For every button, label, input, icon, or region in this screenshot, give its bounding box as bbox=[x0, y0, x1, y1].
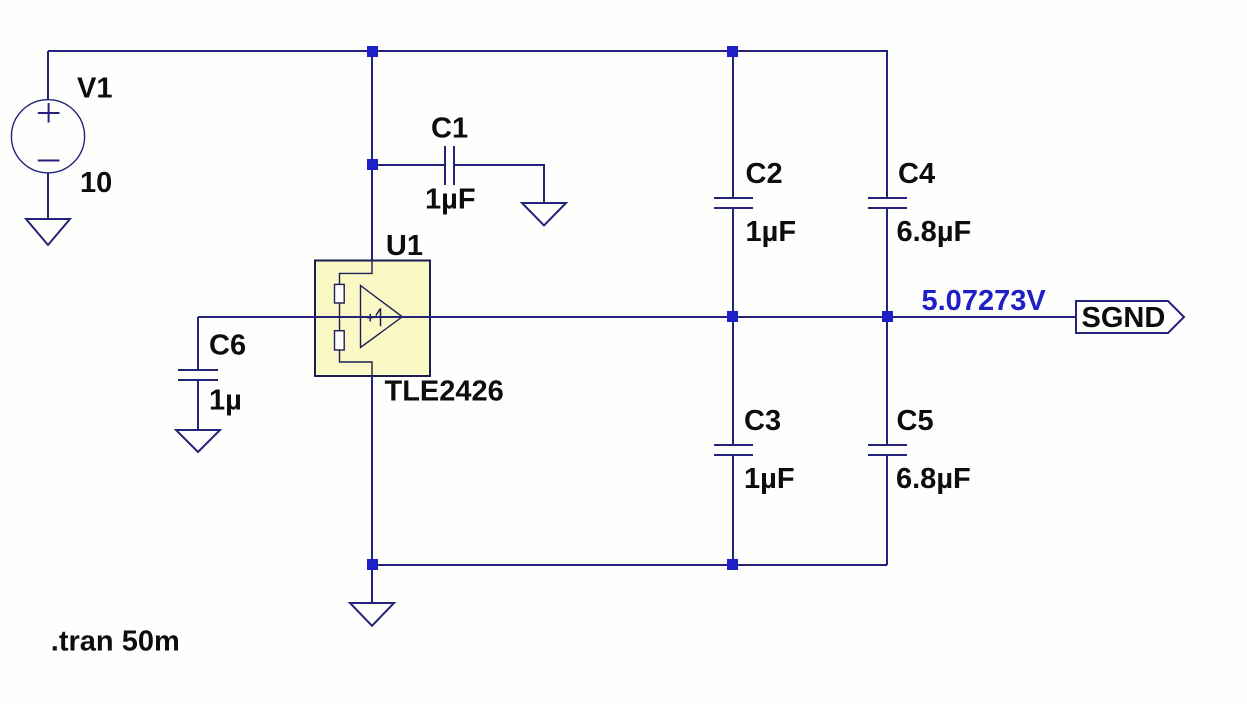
svg-text:C4: C4 bbox=[898, 158, 935, 190]
U1 internal resistor top bbox=[335, 284, 345, 303]
output port flag SGND bbox=[1076, 301, 1184, 333]
wire output rail bbox=[198, 316, 1076, 318]
svg-text:C5: C5 bbox=[897, 405, 934, 437]
wire V1 bottom stub bbox=[47, 173, 49, 219]
junction bottom rail / C3 bbox=[727, 559, 738, 570]
svg-text:10: 10 bbox=[80, 167, 112, 199]
capacitor C6 plates bbox=[178, 370, 218, 380]
svg-text:1µ: 1µ bbox=[209, 385, 242, 417]
U1 +1 marking bbox=[367, 308, 381, 326]
svg-text:1µF: 1µF bbox=[744, 463, 795, 495]
junction bottom rail / U1 ground bbox=[367, 559, 378, 570]
wire U1 common vertical bbox=[371, 376, 373, 565]
svg-text:C1: C1 bbox=[431, 113, 468, 145]
wire top rail bbox=[48, 50, 888, 52]
junction top rail / U1 input bbox=[367, 46, 378, 57]
ground for C1 bbox=[522, 203, 566, 226]
capacitor C3 plates bbox=[714, 445, 753, 455]
ground for C6 bbox=[176, 430, 220, 452]
capacitor C5 plates bbox=[868, 445, 907, 455]
wire V1 top stub bbox=[47, 51, 49, 100]
svg-text:6.8µF: 6.8µF bbox=[896, 463, 971, 495]
U1 internal resistor bottom bbox=[335, 331, 345, 350]
wire C4 branch bbox=[886, 51, 888, 317]
svg-text:U1: U1 bbox=[386, 230, 423, 262]
wire C2 branch bbox=[732, 51, 734, 317]
junction output rail / C2 C3 bbox=[727, 311, 738, 322]
ground below V1 bbox=[26, 219, 70, 245]
svg-text:SGND: SGND bbox=[1082, 302, 1166, 334]
wire C3 branch bbox=[732, 317, 734, 565]
wire U1 ground stub bbox=[371, 565, 373, 603]
svg-text:1µF: 1µF bbox=[425, 184, 476, 216]
junction top rail / C2 bbox=[727, 46, 738, 57]
junction output rail / C4 C5 bbox=[882, 311, 893, 322]
svg-text:C6: C6 bbox=[209, 330, 246, 362]
junction U1 input / C1 bbox=[367, 159, 378, 170]
wire C6 bottom stub bbox=[197, 380, 199, 430]
wire C1 right lead to ground bbox=[455, 165, 544, 203]
ground below U1 common bbox=[350, 603, 394, 626]
wire C1 left lead bbox=[372, 164, 444, 166]
svg-text:TLE2426: TLE2426 bbox=[385, 375, 504, 407]
V1 minus sign bbox=[38, 160, 60, 162]
voltage source V1 circle bbox=[11, 100, 84, 173]
wire bottom rail bbox=[372, 564, 887, 566]
svg-text:V1: V1 bbox=[77, 73, 112, 105]
svg-text:C3: C3 bbox=[744, 405, 781, 437]
wire C5 branch bbox=[886, 317, 888, 565]
V1 plus sign bbox=[38, 103, 60, 123]
wire U1 input vertical bbox=[371, 51, 373, 261]
U1 internal input lead bbox=[340, 261, 373, 285]
U1 internal divider connector bbox=[339, 303, 341, 331]
U1 internal common lead bbox=[340, 350, 373, 376]
svg-text:5.07273V: 5.07273V bbox=[922, 285, 1047, 317]
svg-text:1µF: 1µF bbox=[746, 216, 797, 248]
capacitor C2 plates bbox=[714, 198, 753, 208]
U1 buffer triangle bbox=[361, 286, 403, 348]
svg-text:C2: C2 bbox=[746, 158, 783, 190]
capacitor C1 plates bbox=[445, 146, 454, 185]
wire C6 top stub bbox=[197, 317, 199, 370]
svg-text:6.8µF: 6.8µF bbox=[897, 216, 972, 248]
capacitor C4 plates bbox=[868, 198, 907, 208]
op-amp U1 body box bbox=[315, 261, 430, 377]
svg-text:.tran 50m: .tran 50m bbox=[51, 626, 180, 658]
